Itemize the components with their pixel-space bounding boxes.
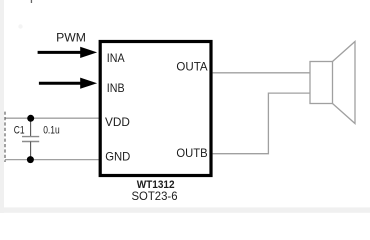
svg-text:VDD: VDD	[105, 115, 130, 129]
svg-text:INB: INB	[107, 81, 125, 95]
wire OUTB to speaker (up and over)	[213, 93, 310, 154]
svg-text:OUTA: OUTA	[176, 59, 207, 73]
svg-text:C1: C1	[14, 124, 25, 136]
svg-text:0.1u: 0.1u	[43, 124, 60, 136]
capacitor C1	[22, 118, 39, 159]
junction node GND	[27, 156, 34, 163]
faint smudge dot	[18, 24, 22, 28]
dashed supply stub line	[4, 112, 6, 162]
stray tick mark top	[31, 0, 32, 3]
op-amp U1 WT1312 chip body	[100, 42, 211, 176]
wire OUTA to speaker	[213, 72, 310, 74]
svg-text:INA: INA	[107, 51, 125, 65]
wire VDD rail	[5, 117, 99, 119]
bottom page margin band	[0, 207, 370, 212]
left page margin band	[0, 0, 4, 213]
wire GND rail	[5, 159, 99, 161]
svg-text:SOT23-6: SOT23-6	[132, 189, 178, 203]
input arrow INA	[38, 47, 98, 58]
speaker LS1	[310, 42, 355, 124]
svg-text:OUTB: OUTB	[176, 146, 207, 160]
svg-text:PWM: PWM	[56, 30, 86, 44]
junction node VDD	[27, 115, 34, 122]
svg-text:GND: GND	[105, 149, 130, 163]
input arrow INB	[39, 78, 97, 89]
